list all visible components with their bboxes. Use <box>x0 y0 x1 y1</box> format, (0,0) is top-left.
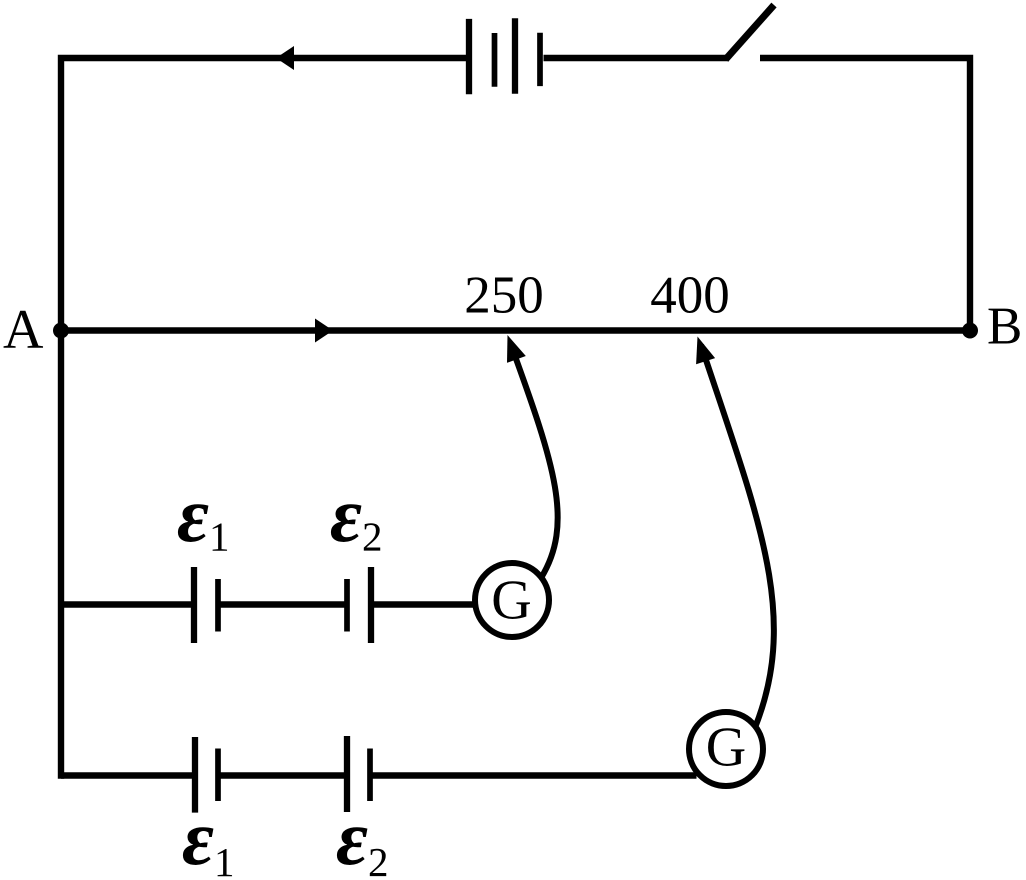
svg-text:400: 400 <box>650 267 730 325</box>
svg-text:B: B <box>987 298 1022 356</box>
svg-text:G: G <box>491 570 531 632</box>
svg-text:250: 250 <box>464 267 544 325</box>
svg-text:A: A <box>3 299 44 361</box>
svg-text:G: G <box>706 717 746 779</box>
